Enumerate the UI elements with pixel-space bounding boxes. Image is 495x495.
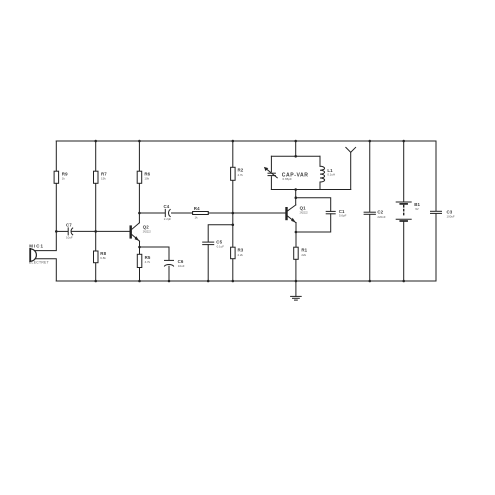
svg-text:MIC1: MIC1 bbox=[29, 244, 44, 249]
junction Q1 emitter / C1 bottom bbox=[295, 231, 298, 234]
resistor R3 bbox=[231, 247, 236, 259]
svg-text:10uF: 10uF bbox=[178, 264, 185, 268]
resistor R5 bbox=[137, 254, 142, 267]
junction ground node bbox=[295, 280, 298, 283]
wire top rail to tank bbox=[295, 141, 297, 156]
svg-text:Q2: Q2 bbox=[143, 225, 150, 230]
svg-text:5.6pF: 5.6pF bbox=[339, 214, 347, 218]
capacitor C6 bbox=[165, 260, 174, 266]
resistor R7 bbox=[94, 171, 99, 183]
svg-text:9V: 9V bbox=[415, 207, 419, 211]
transistor Q1 bbox=[287, 205, 297, 223]
svg-text:4.7k: 4.7k bbox=[145, 260, 151, 264]
svg-text:1k: 1k bbox=[195, 216, 199, 220]
wire R2/R3 branch bbox=[232, 141, 234, 281]
wire C4 coupling bbox=[139, 212, 192, 214]
capacitor C1 bbox=[326, 211, 335, 213]
svg-text:4.7k: 4.7k bbox=[238, 173, 244, 177]
svg-text:2.2pF: 2.2pF bbox=[164, 217, 172, 221]
junction tank bottom bbox=[294, 188, 297, 191]
svg-text:R2: R2 bbox=[238, 168, 244, 173]
svg-text:ELECTRET: ELECTRET bbox=[29, 261, 49, 265]
svg-text:C2: C2 bbox=[377, 210, 383, 215]
svg-text:10k: 10k bbox=[144, 177, 149, 181]
svg-text:220nF: 220nF bbox=[377, 215, 385, 219]
transistor Q2 bbox=[131, 223, 140, 241]
resistor R9 bbox=[54, 171, 59, 183]
tank box top edge bbox=[271, 155, 320, 157]
svg-text:R4: R4 bbox=[194, 206, 200, 211]
svg-text:R8: R8 bbox=[100, 251, 106, 256]
wire Q1 emitter down bbox=[295, 223, 297, 282]
svg-text:2.2k: 2.2k bbox=[238, 253, 244, 257]
capacitor C7 bbox=[68, 228, 73, 235]
microphone MIC1 bbox=[30, 249, 36, 261]
battery B1 bbox=[396, 202, 411, 221]
svg-text:C4: C4 bbox=[164, 204, 170, 209]
resistor R8 bbox=[94, 251, 99, 263]
svg-text:0.1uF: 0.1uF bbox=[217, 244, 225, 248]
svg-text:R9: R9 bbox=[62, 171, 68, 176]
junction tank feed top rail bbox=[294, 140, 297, 143]
svg-text:0.65pF: 0.65pF bbox=[283, 177, 293, 181]
variable capacitor CAP-VAR bbox=[264, 167, 277, 178]
junction R8 bottom rail bbox=[94, 280, 97, 283]
svg-text:10uF: 10uF bbox=[66, 236, 73, 240]
svg-text:R3: R3 bbox=[238, 248, 244, 253]
junction C2 top rail bbox=[368, 140, 371, 143]
wire C7 input segment bbox=[56, 230, 67, 232]
junction C6 bottom rail bbox=[168, 280, 171, 283]
svg-text:R1: R1 bbox=[301, 248, 307, 253]
wire bottom ground rail bbox=[56, 280, 436, 282]
tank box right edge bbox=[319, 156, 321, 189]
svg-text:Q1: Q1 bbox=[300, 206, 307, 211]
junction B1 bottom rail bbox=[402, 280, 405, 283]
wire R4 to Q1 base bbox=[208, 212, 286, 214]
svg-text:100uF: 100uF bbox=[447, 215, 455, 219]
wire R7 branch bbox=[95, 141, 97, 281]
inductor L1 bbox=[320, 166, 325, 182]
resistor R2 bbox=[231, 167, 236, 180]
tank box bottom edge / antenna feed bbox=[271, 189, 350, 191]
ground bbox=[291, 281, 302, 300]
junction C5 bottom rail bbox=[207, 280, 210, 283]
junction R6 top rail bbox=[138, 140, 141, 143]
junction at R7/R8 divider bbox=[94, 230, 97, 233]
junction R7 top rail bbox=[94, 140, 97, 143]
junction R3 bottom rail bbox=[232, 280, 235, 283]
junction R5 bottom rail bbox=[138, 280, 141, 283]
wire C1 feedback loop bbox=[296, 198, 331, 232]
junction Q1 collector / C1 bbox=[295, 196, 298, 199]
junction at R9/C7 bbox=[55, 230, 58, 233]
capacitor C2 bbox=[364, 212, 375, 214]
svg-text:15k: 15k bbox=[101, 177, 106, 181]
svg-text:0.1uH: 0.1uH bbox=[327, 172, 335, 176]
svg-text:6.8k: 6.8k bbox=[100, 256, 106, 260]
junction Q2 emitter / C6 tap bbox=[138, 246, 141, 249]
wire C2 branch bbox=[369, 141, 371, 281]
junction R2 top rail bbox=[232, 140, 235, 143]
wire right edge (C3 branch) bbox=[435, 141, 437, 281]
svg-text:22k: 22k bbox=[301, 253, 306, 257]
wire B1 branch bbox=[403, 141, 405, 281]
wire top supply rail bbox=[56, 140, 436, 142]
antenna ANT bbox=[346, 147, 356, 189]
svg-text:R7: R7 bbox=[101, 171, 107, 176]
junction tank top bbox=[294, 155, 297, 158]
svg-text:2N2222: 2N2222 bbox=[143, 232, 152, 234]
junction C5 tap node bbox=[232, 224, 235, 227]
junction C2 bottom rail bbox=[368, 280, 371, 283]
tank box left edge with variable capacitor bbox=[270, 156, 272, 189]
resistor R1 bbox=[294, 247, 299, 259]
junction R2/R4/base node bbox=[232, 212, 235, 215]
wire emitter to C6 bbox=[140, 247, 170, 281]
wire C7 to Q2 base bbox=[72, 230, 130, 232]
junction B1 top rail bbox=[402, 140, 405, 143]
svg-text:1k: 1k bbox=[62, 177, 66, 181]
wire C5 tap bbox=[208, 225, 233, 281]
svg-text:2N2222: 2N2222 bbox=[300, 213, 309, 215]
capacitor C3 bbox=[431, 211, 442, 213]
junction Q2 collector / C4 tap bbox=[138, 212, 141, 215]
wire left vertical (R9 branch) bbox=[35, 141, 56, 251]
wire Q2 emitter down bbox=[139, 241, 141, 281]
svg-text:R5: R5 bbox=[145, 255, 151, 260]
resistor R6 bbox=[137, 171, 142, 183]
capacitor C4 bbox=[165, 209, 170, 216]
wire R6 branch bbox=[138, 141, 140, 223]
wire mic bottom to bottom rail bbox=[35, 259, 56, 281]
capacitor C5 bbox=[203, 242, 214, 245]
svg-text:R6: R6 bbox=[144, 171, 150, 176]
svg-text:C7: C7 bbox=[66, 223, 72, 228]
resistor R4 bbox=[193, 212, 209, 215]
wire tank to Q1 collector bbox=[295, 190, 297, 205]
